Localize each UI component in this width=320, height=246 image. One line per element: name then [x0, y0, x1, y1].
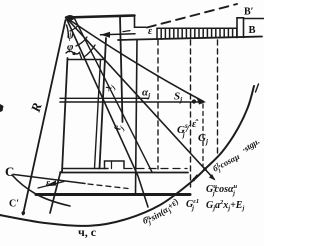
mast left vertical	[100, 38, 107, 169]
mid horizontal above platform	[62, 168, 108, 170]
second short horizontal	[60, 97, 148, 99]
step block right end	[237, 18, 244, 38]
mid horizontal dashed right part	[125, 168, 187, 170]
platform bottom	[36, 193, 190, 196]
svg-text:φ: φ	[67, 41, 74, 53]
dashed vertical short at S point	[202, 104, 204, 166]
svg-text:ψ: ψ	[67, 31, 74, 42]
step box mid tick	[111, 161, 113, 169]
angle tick on ray B	[84, 45, 95, 57]
small tick above boom	[123, 31, 130, 32]
mast left inner vertical	[95, 60, 101, 169]
beam top right	[244, 18, 264, 20]
main arc curve	[0, 86, 254, 226]
angle arc phi	[76, 37, 87, 46]
ray B to junction	[66, 18, 214, 180]
mast right vertical	[120, 17, 123, 123]
curve end tick	[256, 84, 259, 92]
svg-text:ч, с: ч, с	[78, 225, 97, 239]
svg-text:B′: B′	[244, 7, 254, 18]
shelf line	[135, 26, 147, 28]
angle arc psi	[70, 26, 78, 32]
junction point dot	[203, 167, 207, 171]
ray A to S_j arrow	[66, 18, 204, 102]
platform top	[60, 172, 188, 174]
svg-text:Gujcosαuj: Gujcosαuj	[206, 183, 238, 197]
comb teeth	[157, 28, 237, 39]
crossbar	[68, 59, 105, 61]
svg-text:C′: C′	[9, 199, 19, 210]
rotated formula lower left of junction	[144, 186, 192, 224]
angle eps wedge	[38, 182, 64, 189]
column vertical	[136, 40, 138, 195]
tower left edge	[62, 58, 68, 172]
left edge stray mark	[0, 104, 4, 112]
radius R line	[23, 20, 66, 215]
C-line 2 dashed continuation	[88, 184, 128, 189]
step box on platform	[105, 161, 125, 169]
svg-text:Gja2xj+Ej: Gja2xj+Ej	[206, 199, 244, 212]
wedge arrowhead	[44, 181, 56, 187]
boom arrowhead	[101, 32, 111, 38]
arrowhead at S point	[197, 99, 206, 105]
point dot S_j	[192, 99, 196, 103]
dashed vertical 3	[217, 40, 219, 156]
ray C2 steep to platform	[74, 18, 152, 173]
arrowhead at ray B end	[209, 174, 216, 181]
block on boom	[134, 16, 136, 28]
blob at R end	[22, 211, 26, 215]
apex squiggle	[67, 25, 69, 37]
boom arrow line	[101, 34, 136, 35]
small arrow at junction	[191, 175, 197, 182]
svg-text:C: C	[5, 164, 14, 179]
dashed sheer line to B'	[147, 4, 237, 28]
dashed vertical 1	[157, 40, 159, 169]
dot on wavy stroke	[72, 52, 75, 55]
wavy stroke below phi	[66, 51, 82, 58]
pivot point O	[66, 15, 75, 21]
C-line 2	[14, 175, 85, 184]
svg-text:B: B	[249, 25, 256, 36]
top beam	[66, 16, 135, 18]
tower edge below platform	[50, 172, 61, 213]
ray C steep	[66, 18, 148, 208]
comb strip bottom line	[118, 37, 262, 41]
C-line 1	[12, 175, 70, 206]
dashed vertical 2	[190, 40, 192, 187]
S_j horizontal line	[60, 101, 202, 103]
